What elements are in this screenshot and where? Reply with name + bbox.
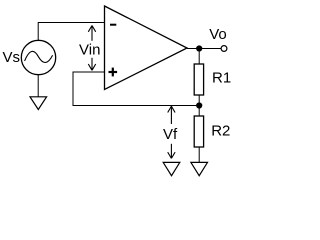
svg-text:Vs: Vs [3,49,21,66]
svg-text:Vf: Vf [163,126,178,143]
svg-text:Vin: Vin [79,42,100,59]
svg-text:R1: R1 [212,70,231,87]
svg-text:Vo: Vo [209,26,227,43]
svg-text:R2: R2 [211,123,230,140]
